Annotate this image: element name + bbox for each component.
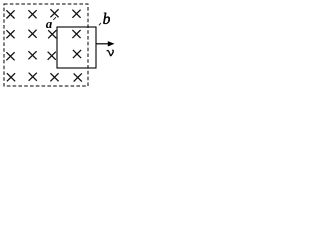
background: [0, 0, 119, 92]
label a entry stroke: [53, 17, 56, 20]
svg-text:a: a: [46, 16, 53, 31]
cross r2c3: [48, 30, 56, 38]
velocity arrow head: [108, 41, 115, 46]
svg-text:b: b: [103, 11, 111, 28]
cross r1c4: [72, 10, 80, 18]
label v: [107, 50, 113, 56]
field region boundary (dashed rectangle): [4, 4, 88, 86]
cross r1c1: [6, 10, 14, 18]
cross r4c4: [74, 73, 82, 81]
cross r2c1: [6, 30, 14, 38]
cross r4c3: [50, 73, 58, 81]
label b leader tick: [99, 23, 101, 25]
cross r3c3: [48, 52, 56, 60]
cross r1c2: [28, 10, 36, 18]
cross r4c2: [29, 73, 37, 81]
cross r3c2: [28, 51, 36, 59]
cross r3c4: [73, 50, 81, 58]
cross r3c1: [6, 52, 14, 60]
cross r2c4: [72, 30, 80, 38]
cross r2c2: [28, 30, 36, 38]
flux crosses (B into page), 4x4 grid: [6, 9, 81, 81]
cross r1c3: [50, 9, 58, 17]
cross r4c1: [7, 73, 15, 81]
conducting loop (square): [57, 27, 96, 68]
velocity arrow shaft: [97, 43, 110, 45]
